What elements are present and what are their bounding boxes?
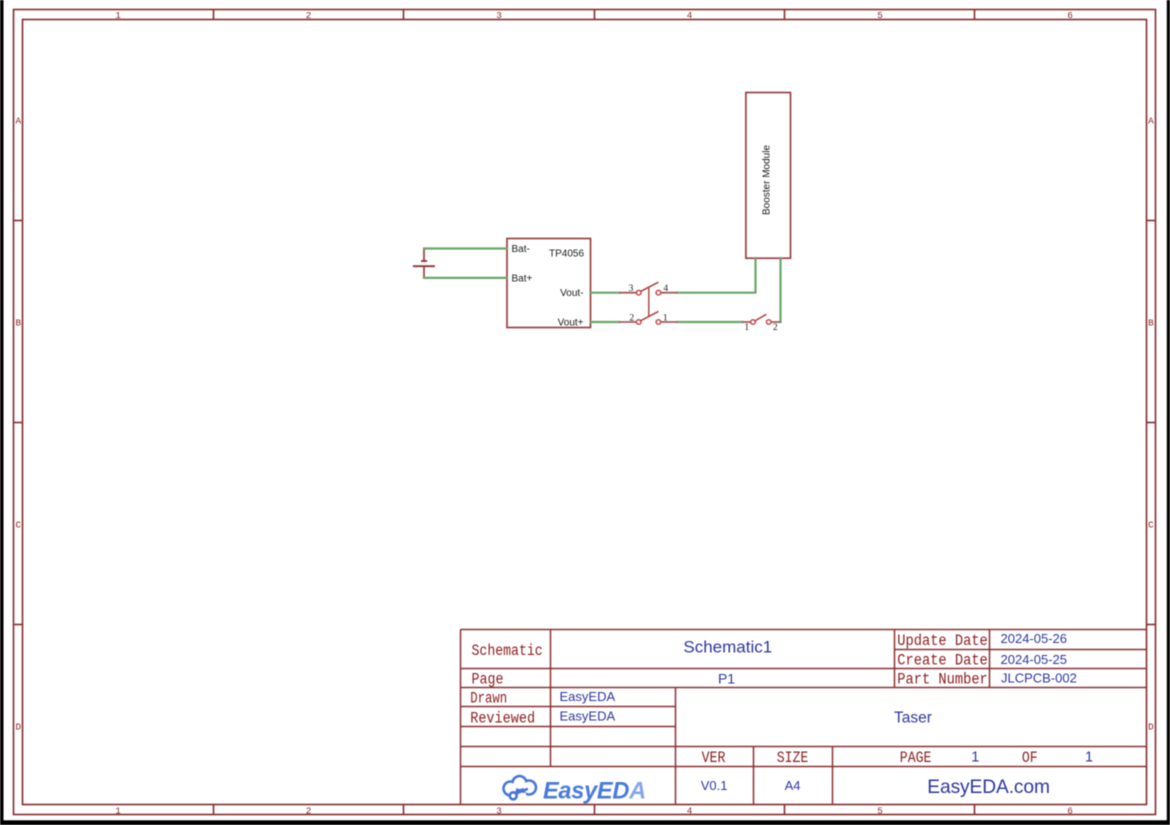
svg-text:3: 3 [629,284,634,294]
svg-text:A: A [16,116,22,127]
svg-text:Part Number: Part Number [897,671,988,689]
svg-text:Bat+: Bat+ [512,273,533,284]
svg-text:4: 4 [687,10,693,21]
svg-text:D: D [16,722,22,733]
svg-text:Drawn: Drawn [470,690,507,708]
svg-text:Page: Page [472,671,504,689]
svg-text:JLCPCB-002: JLCPCB-002 [1001,671,1077,686]
svg-text:V0.1: V0.1 [701,778,728,793]
svg-text:2: 2 [306,10,312,21]
svg-text:Booster Module: Booster Module [762,145,773,215]
svg-text:SIZE: SIZE [777,749,809,767]
svg-text:PAGE: PAGE [900,749,932,767]
svg-text:A4: A4 [785,778,801,793]
svg-text:1: 1 [971,749,979,765]
svg-text:EasyEDA.com: EasyEDA.com [927,777,1050,798]
svg-text:5: 5 [877,806,883,817]
svg-text:1: 1 [663,313,668,323]
svg-text:B: B [1148,318,1154,329]
svg-text:C: C [16,520,22,531]
svg-text:1: 1 [115,10,121,21]
svg-text:2: 2 [773,323,778,333]
svg-text:4: 4 [687,806,693,817]
svg-text:Vout+: Vout+ [558,317,584,328]
svg-text:6: 6 [1067,806,1073,817]
svg-text:B: B [16,318,22,329]
svg-text:5: 5 [877,10,883,21]
svg-text:3: 3 [496,10,502,21]
svg-text:A: A [1148,116,1154,127]
svg-text:D: D [1148,722,1154,733]
svg-text:EasyEDA: EasyEDA [560,709,616,724]
svg-text:OF: OF [1022,749,1038,767]
svg-text:Bat-: Bat- [512,244,530,255]
svg-text:Create Date: Create Date [897,652,988,670]
svg-text:6: 6 [1067,10,1073,21]
svg-text:TP4056: TP4056 [549,249,584,260]
svg-text:Schematic1: Schematic1 [683,638,772,657]
svg-text:C: C [1148,520,1154,531]
svg-text:EasyEDA: EasyEDA [543,778,646,804]
svg-text:Vout-: Vout- [560,288,583,299]
svg-text:VER: VER [702,749,726,767]
svg-text:EasyEDA: EasyEDA [560,689,616,704]
svg-text:2: 2 [306,806,312,817]
svg-text:Update Date: Update Date [897,632,988,650]
svg-text:2024-05-26: 2024-05-26 [1001,631,1068,646]
svg-text:1: 1 [1085,749,1093,765]
svg-text:4: 4 [663,284,668,294]
svg-text:Reviewed: Reviewed [470,709,535,727]
svg-text:1: 1 [744,323,749,333]
svg-text:3: 3 [496,806,502,817]
svg-text:P1: P1 [718,670,735,686]
svg-text:2: 2 [629,313,634,323]
svg-text:1: 1 [115,806,121,817]
svg-text:Taser: Taser [894,709,932,726]
svg-text:2024-05-25: 2024-05-25 [1001,652,1068,667]
svg-text:Schematic: Schematic [472,642,543,660]
